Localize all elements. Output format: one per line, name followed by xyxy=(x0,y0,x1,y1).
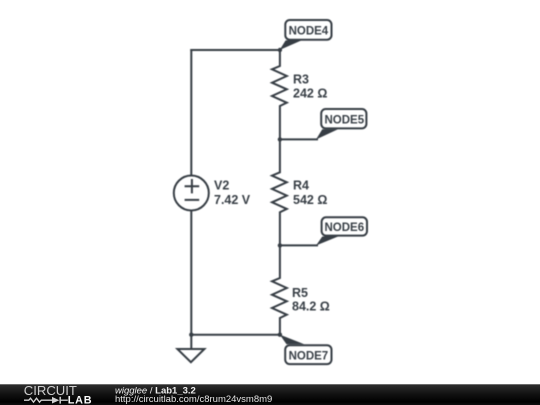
svg-text:NODE4: NODE4 xyxy=(289,25,329,37)
wire left vertical upper xyxy=(190,50,192,176)
resistor R3 xyxy=(272,50,287,139)
ground xyxy=(177,349,204,362)
voltage source V2 xyxy=(174,176,209,211)
svg-text:84.2 Ω: 84.2 Ω xyxy=(292,300,330,314)
svg-text:7.42 V: 7.42 V xyxy=(214,193,251,207)
svg-text:R4: R4 xyxy=(293,179,309,193)
node NODE6 flag xyxy=(316,217,367,245)
junction dot ground xyxy=(189,333,193,337)
junction dot NODE6 xyxy=(278,243,282,247)
svg-text:R3: R3 xyxy=(293,73,309,87)
svg-text:V2: V2 xyxy=(214,179,229,193)
logo waveform xyxy=(24,397,60,404)
junction dot NODE4 xyxy=(278,48,282,52)
wire top horizontal xyxy=(191,49,280,51)
ground stem wire xyxy=(190,335,192,349)
svg-text:242 Ω: 242 Ω xyxy=(293,87,327,101)
label R4 value xyxy=(293,179,327,207)
svg-text:NODE7: NODE7 xyxy=(289,350,329,362)
node NODE4 flag xyxy=(280,20,332,50)
label R5 value xyxy=(292,286,330,314)
svg-text:R5: R5 xyxy=(292,286,308,300)
wire stub NODE6 xyxy=(280,244,317,246)
wire stub NODE5 xyxy=(280,138,317,140)
svg-text:542 Ω: 542 Ω xyxy=(293,193,327,207)
wire bottom horizontal xyxy=(191,334,280,336)
svg-text:NODE5: NODE5 xyxy=(324,114,364,126)
junction dot NODE5 xyxy=(278,137,282,141)
node NODE5 flag xyxy=(316,109,366,140)
resistor R4 xyxy=(272,139,287,245)
svg-text:LAB: LAB xyxy=(68,394,93,405)
svg-text:http://circuitlab.com/c8rum24v: http://circuitlab.com/c8rum24vsm8m9 xyxy=(115,394,272,405)
node NODE7 flag xyxy=(280,335,332,365)
logo tail wire xyxy=(61,399,68,401)
resistor R5 xyxy=(272,245,287,334)
junction dot NODE7 xyxy=(278,333,282,337)
label V2 value xyxy=(214,179,251,207)
wire left vertical lower xyxy=(190,211,192,335)
logo diode xyxy=(52,397,59,404)
label R3 value xyxy=(293,73,327,101)
footer bar xyxy=(0,384,540,405)
svg-text:NODE6: NODE6 xyxy=(324,222,364,234)
